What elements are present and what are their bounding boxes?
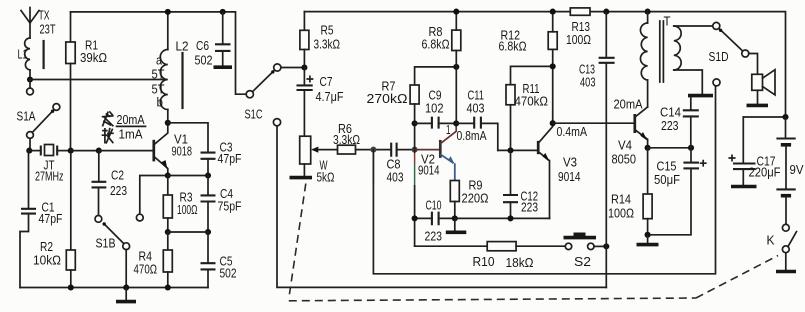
resistor R11 bbox=[506, 66, 553, 150]
wire emitter ground row bbox=[455, 217, 550, 219]
node rail R12 bbox=[550, 9, 556, 15]
capacitor C17 electrolytic bbox=[729, 117, 755, 185]
node R3 C4 left bbox=[165, 229, 171, 235]
switch S1A bbox=[27, 88, 60, 138]
svg-text:1mA: 1mA bbox=[119, 128, 144, 142]
wire battery top bbox=[743, 116, 785, 118]
svg-text:5T: 5T bbox=[152, 83, 165, 97]
wire emitter row bbox=[168, 175, 208, 177]
svg-text:20mA: 20mA bbox=[117, 113, 146, 127]
node V3 collector bbox=[550, 120, 556, 126]
transformer T primary bbox=[640, 12, 647, 107]
capacitor C4 bbox=[201, 176, 216, 233]
svg-text:TX: TX bbox=[39, 9, 50, 23]
svg-text:C2: C2 bbox=[111, 169, 124, 183]
resistor R14 bbox=[643, 148, 652, 235]
svg-text:403: 403 bbox=[467, 102, 485, 116]
svg-text:b: b bbox=[157, 96, 164, 110]
svg-text:R4: R4 bbox=[139, 250, 153, 264]
svg-text:L2: L2 bbox=[176, 40, 189, 54]
svg-text:502: 502 bbox=[220, 267, 237, 281]
node rail S1B bbox=[123, 284, 129, 290]
inductor L2 bbox=[160, 50, 182, 110]
node crystal right junction R1 R2 bbox=[68, 148, 74, 154]
mechanical link to K dashed bbox=[696, 256, 778, 299]
svg-text:3.3kΩ: 3.3kΩ bbox=[314, 38, 341, 52]
node battery top bbox=[782, 114, 788, 120]
node R3 C4 right bbox=[205, 229, 211, 235]
svg-text:102: 102 bbox=[425, 102, 444, 116]
svg-text:R9: R9 bbox=[469, 179, 483, 193]
svg-text:9014: 9014 bbox=[558, 170, 581, 184]
node mic line tap bbox=[370, 147, 376, 153]
svg-text:50μF: 50μF bbox=[654, 173, 680, 187]
svg-text:470Ω: 470Ω bbox=[134, 263, 158, 277]
svg-text:R13: R13 bbox=[572, 20, 591, 34]
transistor V2 bbox=[440, 123, 456, 180]
svg-text:C7: C7 bbox=[320, 75, 333, 89]
wire mic return line bbox=[373, 86, 715, 274]
ground R14 bbox=[637, 235, 659, 245]
wire to S1A top contact bbox=[29, 80, 31, 89]
node V1 collector L2 bbox=[165, 120, 171, 126]
wire S1C lower contact return bbox=[277, 126, 606, 288]
node V2 collector bbox=[453, 120, 459, 126]
svg-text:223: 223 bbox=[521, 201, 538, 215]
pushbutton S2 bbox=[564, 234, 607, 249]
speaker BL bbox=[752, 70, 775, 95]
svg-text:47pF: 47pF bbox=[39, 212, 63, 226]
svg-text:10kΩ: 10kΩ bbox=[33, 254, 61, 268]
capacitor C2 bbox=[92, 151, 107, 216]
switch K bbox=[782, 224, 796, 252]
svg-text:V4: V4 bbox=[618, 139, 632, 153]
svg-text:C6: C6 bbox=[196, 39, 209, 53]
svg-text:a: a bbox=[156, 54, 162, 68]
transistor V3 bbox=[538, 123, 553, 218]
transistor V4 bbox=[635, 107, 648, 148]
svg-text:S1A: S1A bbox=[17, 110, 36, 124]
top rail left bbox=[71, 12, 247, 94]
svg-text:T: T bbox=[664, 15, 671, 29]
top rail right bbox=[304, 12, 785, 117]
wire V3 base row bbox=[498, 149, 538, 151]
wire base lead V1 bbox=[99, 150, 153, 152]
svg-text:470kΩ: 470kΩ bbox=[515, 95, 549, 109]
svg-text:S1D: S1D bbox=[709, 50, 729, 64]
wire S1D common to speaker bbox=[749, 54, 758, 75]
svg-text:18kΩ: 18kΩ bbox=[506, 256, 534, 270]
wire S1A common down bbox=[29, 138, 30, 150]
node L1 tap junction bbox=[27, 76, 33, 82]
capacitor C12 bbox=[503, 150, 518, 218]
transformer T secondary bbox=[674, 26, 713, 94]
node C2 top junction bbox=[96, 148, 102, 154]
resistor R12 bbox=[548, 12, 557, 124]
svg-text:47pF: 47pF bbox=[218, 152, 242, 166]
resistor R13 bbox=[570, 8, 590, 15]
svg-text:K: K bbox=[767, 234, 776, 248]
ground W bbox=[290, 176, 313, 180]
wire S1B right contact to emitter node bbox=[140, 176, 168, 215]
node C14 C15 bbox=[688, 145, 694, 151]
capacitor C9 bbox=[415, 117, 457, 129]
svg-text:27MHz: 27MHz bbox=[35, 170, 64, 184]
svg-text:R10: R10 bbox=[473, 255, 495, 269]
svg-text:23T: 23T bbox=[40, 23, 56, 37]
svg-text:270kΩ: 270kΩ bbox=[367, 92, 408, 106]
svg-text:39kΩ: 39kΩ bbox=[80, 51, 107, 65]
node V1 emitter bbox=[165, 172, 171, 178]
svg-text:9014: 9014 bbox=[418, 164, 440, 178]
node rail R8 bbox=[453, 9, 459, 15]
wire R3 C4 row bbox=[168, 231, 208, 233]
resistor R9 bbox=[450, 181, 459, 219]
mechanical link bottom dashed bbox=[289, 298, 696, 301]
capacitor C14 bbox=[683, 97, 699, 148]
svg-text:R2: R2 bbox=[40, 240, 53, 254]
node R5 C7 S1C bbox=[301, 64, 307, 70]
switch S1C bbox=[246, 64, 281, 126]
svg-text:C9: C9 bbox=[429, 89, 442, 103]
node C12 bottom bbox=[507, 215, 513, 221]
svg-text:L1: L1 bbox=[18, 48, 28, 62]
svg-text:S1B: S1B bbox=[96, 237, 116, 251]
capacitor C13 bbox=[599, 12, 615, 288]
node rail C13 bbox=[603, 9, 609, 15]
wire watermark tick green bbox=[372, 163, 374, 184]
node R11 R12 bbox=[550, 63, 556, 69]
node rail C6 bbox=[220, 9, 226, 15]
svg-text:C14: C14 bbox=[660, 106, 681, 120]
resistor R2 bbox=[66, 154, 75, 288]
resistor R6 bbox=[338, 145, 392, 154]
transistor V1 bbox=[154, 123, 168, 176]
wire S1C upper contact to R5 node bbox=[281, 67, 305, 69]
ground K bbox=[776, 253, 796, 272]
svg-text:C11: C11 bbox=[468, 89, 485, 103]
svg-text:223: 223 bbox=[110, 184, 127, 198]
svg-text:100Ω: 100Ω bbox=[608, 207, 634, 221]
wire base to V2 bar bbox=[415, 149, 440, 151]
ground C6 bbox=[214, 65, 233, 69]
resistor R10 bbox=[487, 242, 565, 251]
svg-text:9018: 9018 bbox=[172, 145, 193, 159]
svg-text:S1C: S1C bbox=[245, 108, 263, 122]
svg-text:6.8kΩ: 6.8kΩ bbox=[499, 40, 527, 54]
ground symbol main bbox=[116, 288, 136, 302]
node rail transformer bbox=[645, 9, 651, 15]
wire L2 top to rail bbox=[167, 12, 169, 50]
svg-text:100Ω: 100Ω bbox=[177, 203, 198, 217]
switch S1B bbox=[95, 214, 143, 249]
svg-text:C8: C8 bbox=[387, 158, 401, 172]
wire emitter to C14 C15 bbox=[648, 147, 691, 149]
mechanical link W to K dashed bbox=[289, 184, 306, 299]
node R7 top bbox=[453, 64, 459, 70]
inductor L1 bbox=[25, 38, 44, 70]
capacitor C6 bbox=[215, 12, 231, 65]
svg-text:S2: S2 bbox=[574, 255, 591, 269]
wire watermark tick red bbox=[372, 152, 374, 163]
node rail L2 bbox=[165, 9, 171, 15]
capacitor C3 bbox=[201, 153, 216, 176]
svg-text:223: 223 bbox=[425, 230, 443, 244]
label 收 receive glyph bbox=[103, 129, 113, 143]
svg-text:0.4mA: 0.4mA bbox=[557, 125, 588, 139]
svg-text:403: 403 bbox=[387, 171, 404, 185]
svg-text:3.3kΩ: 3.3kΩ bbox=[333, 133, 360, 147]
svg-text:75pF: 75pF bbox=[218, 200, 242, 214]
wire collector to C3 bbox=[168, 123, 208, 152]
wire crystal to C2 node bbox=[71, 150, 99, 152]
node C10 left bbox=[412, 215, 418, 221]
node R11 V3 base bbox=[507, 147, 513, 153]
svg-text:8050: 8050 bbox=[612, 153, 637, 167]
svg-text:R14: R14 bbox=[611, 193, 631, 207]
node R9 bottom bbox=[452, 215, 458, 221]
transformer T core bbox=[660, 21, 664, 82]
node S2 C13 column bbox=[603, 243, 609, 249]
wire to crystal bbox=[29, 150, 41, 152]
node crystal left junction bbox=[26, 148, 32, 154]
node R7 bottom C9 bbox=[412, 120, 418, 126]
wire V2 base column bbox=[414, 163, 416, 186]
capacitor C8 bbox=[391, 143, 414, 157]
ground rail left bbox=[20, 287, 208, 289]
svg-text:220μF: 220μF bbox=[749, 166, 781, 180]
resistor R8 bbox=[452, 12, 461, 124]
resistor R7 bbox=[410, 67, 456, 124]
ground C17 bbox=[731, 185, 757, 189]
svg-text:9V: 9V bbox=[790, 163, 805, 177]
resistor R5 bbox=[300, 12, 309, 68]
capacitor C7 electrolytic bbox=[297, 68, 313, 137]
svg-text:4.7μF: 4.7μF bbox=[316, 90, 344, 104]
svg-text:223: 223 bbox=[661, 119, 679, 133]
svg-text:403: 403 bbox=[580, 76, 596, 90]
switch S1D bbox=[713, 22, 749, 86]
svg-text:C13: C13 bbox=[579, 63, 595, 77]
resistor R3 bbox=[163, 176, 172, 233]
node rail R2 bbox=[68, 284, 74, 290]
svg-text:V3: V3 bbox=[563, 156, 577, 170]
svg-text:1: 1 bbox=[446, 123, 451, 137]
node R14 bottom bbox=[645, 232, 651, 238]
battery GB 9V bbox=[776, 117, 795, 224]
svg-text:C15: C15 bbox=[657, 160, 677, 174]
svg-text:0.8mA: 0.8mA bbox=[457, 129, 487, 143]
node rail R4 bbox=[165, 284, 171, 290]
wire tap to L2 bbox=[30, 79, 166, 81]
svg-text:6.8kΩ: 6.8kΩ bbox=[422, 38, 450, 52]
node C3 bottom bbox=[205, 172, 211, 178]
svg-text:5kΩ: 5kΩ bbox=[317, 171, 335, 185]
ground speaker bbox=[747, 90, 769, 105]
svg-text:R5: R5 bbox=[321, 24, 334, 38]
wire watermark stub bbox=[414, 152, 416, 163]
fraction bar bbox=[117, 125, 146, 127]
svg-text:20mA: 20mA bbox=[614, 98, 644, 112]
node V4 emitter bbox=[645, 145, 651, 151]
wire S1B common to ground rail bbox=[125, 250, 127, 288]
crystal JT 27MHz bbox=[41, 145, 71, 156]
svg-text:220Ω: 220Ω bbox=[462, 192, 489, 206]
node V2 base bbox=[412, 147, 418, 153]
capacitor C5 bbox=[201, 232, 216, 288]
capacitor C15 electrolytic bbox=[648, 148, 706, 235]
capacitor C1 bbox=[20, 151, 36, 288]
ground R9 bbox=[446, 218, 467, 232]
svg-text:C10: C10 bbox=[426, 199, 442, 213]
svg-text:5T: 5T bbox=[152, 68, 165, 82]
wire L1 bottom bbox=[29, 70, 31, 80]
resistor R4 bbox=[163, 232, 172, 288]
svg-text:100Ω: 100Ω bbox=[566, 33, 591, 47]
wire L2 bottom to collector node bbox=[167, 110, 169, 123]
label 发 transmit glyph bbox=[103, 112, 113, 126]
potentiometer W bbox=[300, 136, 338, 176]
svg-text:502: 502 bbox=[195, 54, 213, 68]
capacitor C11 bbox=[456, 117, 498, 151]
resistor R1 bbox=[66, 12, 75, 148]
wire audio bottom row bbox=[415, 245, 488, 247]
wire V3 collector to V4 base bbox=[553, 122, 635, 124]
antenna TX bbox=[21, 8, 39, 39]
capacitor C10 bbox=[415, 212, 455, 226]
ground transformer secondary bbox=[688, 94, 713, 98]
